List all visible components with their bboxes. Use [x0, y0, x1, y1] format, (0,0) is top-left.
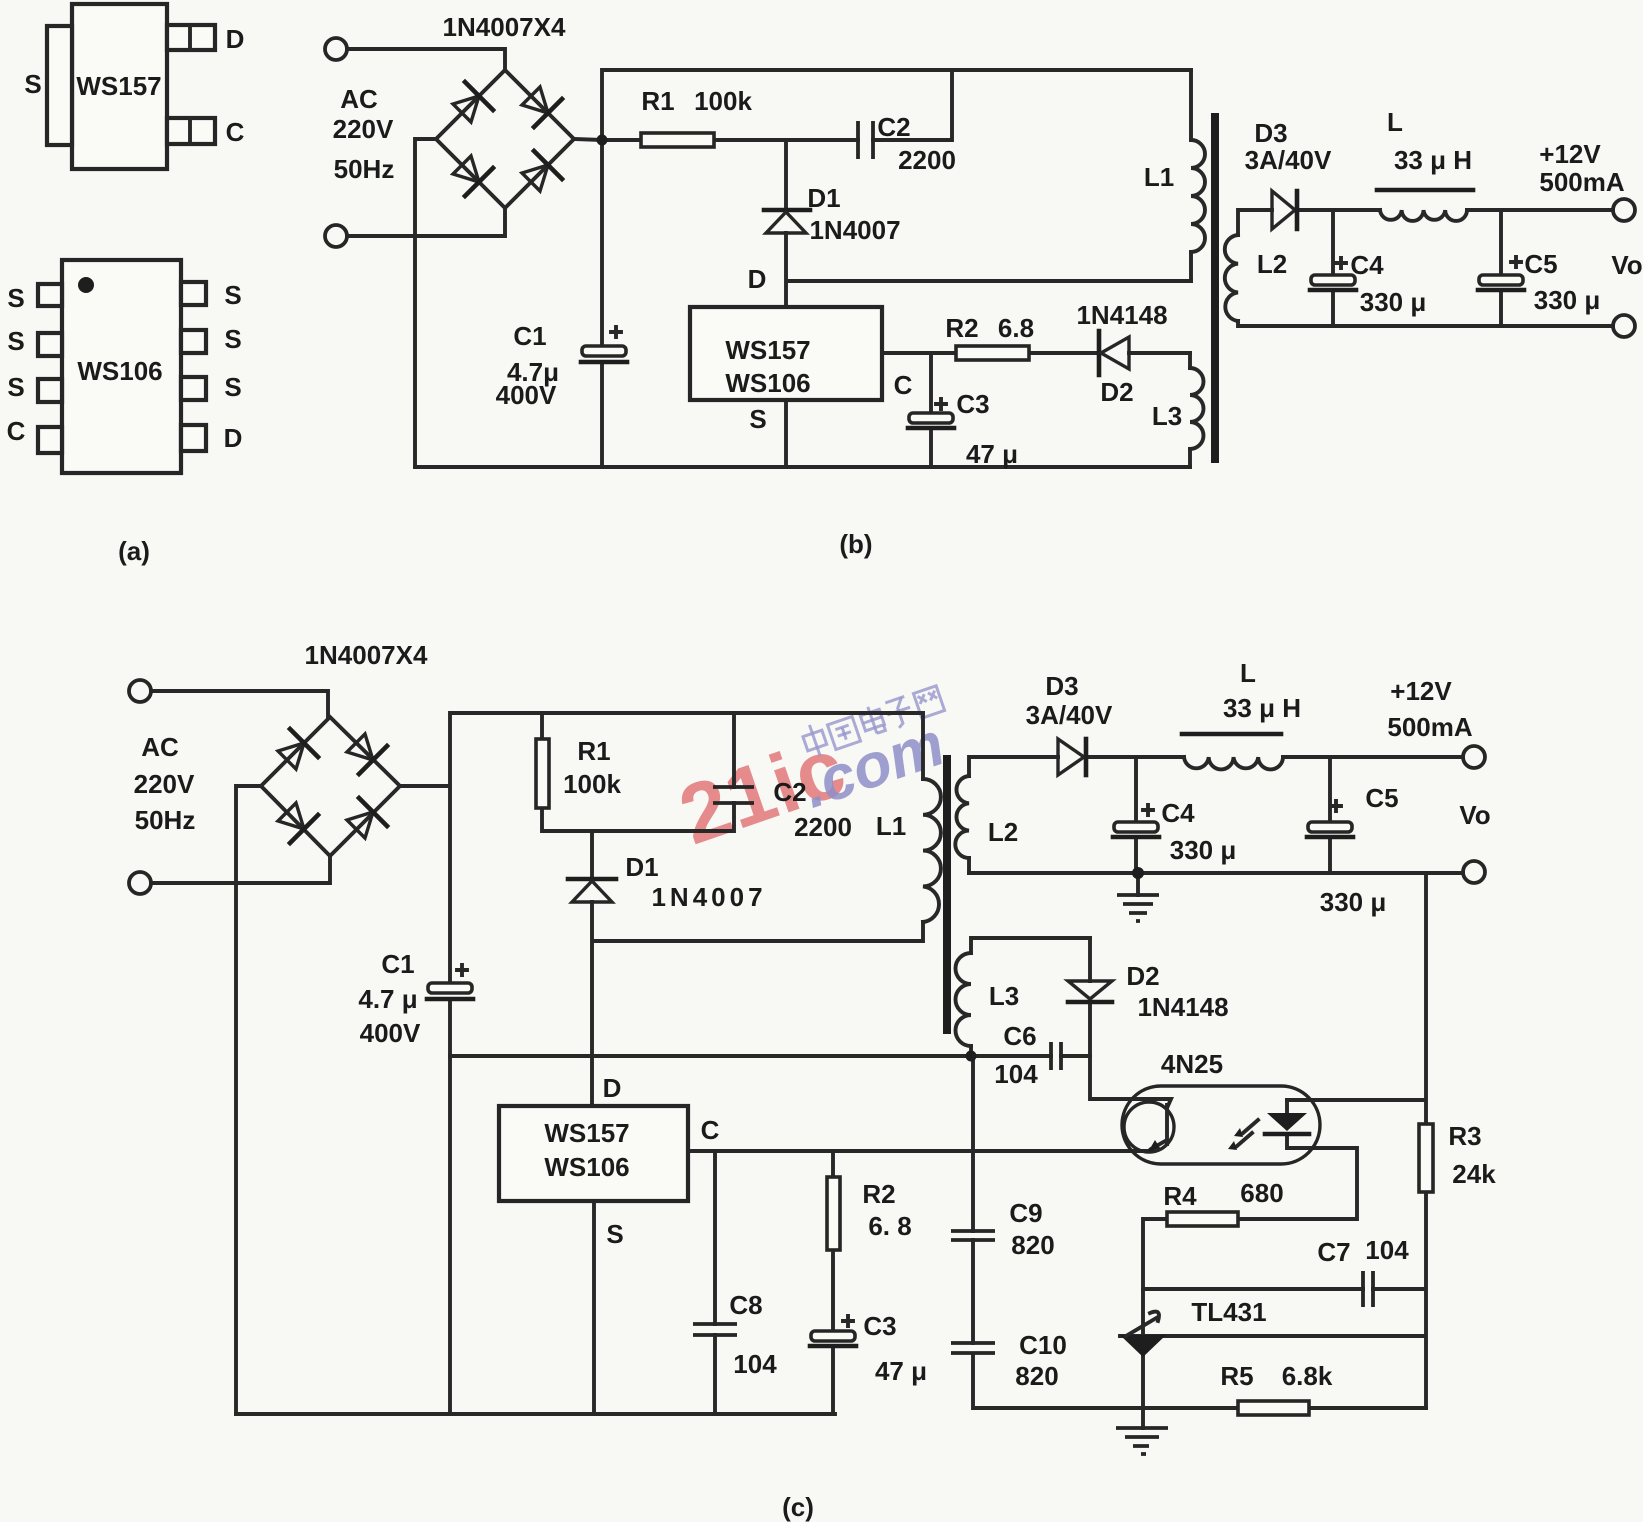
svg-text:AC: AC — [141, 732, 179, 762]
svg-text:D: D — [748, 264, 767, 294]
svg-text:L: L — [1387, 107, 1403, 137]
svg-text:C8: C8 — [729, 1290, 762, 1320]
svg-text:C7: C7 — [1317, 1237, 1350, 1267]
svg-text:C: C — [894, 370, 913, 400]
svg-text:33 μ H: 33 μ H — [1223, 693, 1301, 723]
svg-text:S: S — [224, 372, 241, 402]
svg-text:S: S — [24, 69, 41, 99]
svg-text:C: C — [226, 117, 245, 147]
svg-text:L1: L1 — [1144, 162, 1174, 192]
svg-text:500mA: 500mA — [1387, 712, 1472, 742]
svg-text:S: S — [224, 280, 241, 310]
svg-text:(b): (b) — [839, 529, 872, 559]
svg-text:S: S — [7, 283, 24, 313]
svg-text:6.8k: 6.8k — [1282, 1361, 1333, 1391]
svg-text:L3: L3 — [1152, 401, 1182, 431]
svg-text:R2: R2 — [945, 313, 978, 343]
svg-text:220V: 220V — [333, 114, 394, 144]
svg-text:6. 8: 6. 8 — [868, 1211, 911, 1241]
svg-text:C6: C6 — [1003, 1021, 1036, 1051]
svg-text:820: 820 — [1011, 1230, 1054, 1260]
svg-text:D2: D2 — [1100, 377, 1133, 407]
svg-text:400V: 400V — [360, 1018, 421, 1048]
svg-text:+12V: +12V — [1539, 139, 1601, 169]
svg-text:L1: L1 — [876, 811, 906, 841]
svg-text:S: S — [7, 372, 24, 402]
svg-text:C2: C2 — [877, 112, 910, 142]
svg-text:(c): (c) — [782, 1492, 814, 1522]
svg-text:R2: R2 — [862, 1179, 895, 1209]
svg-text:S: S — [224, 324, 241, 354]
svg-text:WS157: WS157 — [76, 71, 161, 101]
svg-text:3A/40V: 3A/40V — [1245, 145, 1332, 175]
svg-text:C10: C10 — [1019, 1330, 1067, 1360]
svg-text:D1: D1 — [625, 852, 658, 882]
svg-text:R4: R4 — [1163, 1181, 1197, 1211]
svg-text:C3: C3 — [863, 1311, 896, 1341]
svg-text:47 μ: 47 μ — [966, 439, 1018, 469]
svg-text:1N4148: 1N4148 — [1076, 300, 1167, 330]
svg-text:Vo: Vo — [1459, 800, 1490, 830]
svg-text:D2: D2 — [1126, 961, 1159, 991]
svg-text:WS106: WS106 — [725, 368, 810, 398]
svg-text:D: D — [603, 1073, 622, 1103]
svg-text:(a): (a) — [118, 536, 150, 566]
svg-text:WS106: WS106 — [544, 1152, 629, 1182]
svg-text:24k: 24k — [1452, 1159, 1496, 1189]
svg-text:3A/40V: 3A/40V — [1026, 700, 1113, 730]
svg-text:Vo: Vo — [1611, 250, 1642, 280]
svg-text:680: 680 — [1240, 1178, 1283, 1208]
svg-text:1N4007X4: 1N4007X4 — [305, 640, 428, 670]
svg-text:104: 104 — [994, 1059, 1038, 1089]
svg-text:820: 820 — [1015, 1361, 1058, 1391]
svg-text:C2: C2 — [773, 777, 806, 807]
svg-text:C1: C1 — [381, 949, 414, 979]
svg-text:R1: R1 — [641, 86, 674, 116]
svg-text:D3: D3 — [1045, 671, 1078, 701]
svg-text:C5: C5 — [1365, 783, 1398, 813]
svg-text:R5: R5 — [1220, 1361, 1253, 1391]
svg-text:1N4007: 1N4007 — [651, 882, 766, 912]
svg-text:1N4148: 1N4148 — [1137, 992, 1228, 1022]
svg-text:6.8: 6.8 — [998, 313, 1034, 343]
svg-text:R3: R3 — [1448, 1121, 1481, 1151]
svg-text:2200: 2200 — [794, 812, 852, 842]
svg-text:100k: 100k — [694, 86, 752, 116]
svg-text:WS157: WS157 — [725, 335, 810, 365]
svg-text:1N4007: 1N4007 — [809, 215, 900, 245]
svg-text:R1: R1 — [577, 736, 610, 766]
svg-text:L2: L2 — [1257, 249, 1287, 279]
svg-text:4.7 μ: 4.7 μ — [358, 984, 417, 1014]
svg-text:D1: D1 — [807, 183, 840, 213]
svg-text:S: S — [749, 404, 766, 434]
svg-text:50Hz: 50Hz — [135, 805, 196, 835]
svg-text:C4: C4 — [1161, 798, 1195, 828]
svg-text:D: D — [224, 423, 243, 453]
svg-text:L3: L3 — [989, 981, 1019, 1011]
svg-text:L2: L2 — [988, 817, 1018, 847]
svg-text:C1: C1 — [513, 321, 546, 351]
svg-text:L: L — [1240, 658, 1256, 688]
svg-text:C: C — [7, 416, 26, 446]
svg-text:1N4007X4: 1N4007X4 — [443, 12, 566, 42]
svg-text:C4: C4 — [1350, 250, 1384, 280]
svg-text:S: S — [7, 326, 24, 356]
svg-text:330 μ: 330 μ — [1320, 887, 1387, 917]
svg-text:C5: C5 — [1524, 249, 1557, 279]
svg-text:C3: C3 — [956, 389, 989, 419]
svg-text:C: C — [701, 1115, 720, 1145]
svg-text:330 μ: 330 μ — [1170, 835, 1237, 865]
svg-text:+12V: +12V — [1390, 676, 1452, 706]
svg-text:D3: D3 — [1254, 118, 1287, 148]
svg-text:AC: AC — [340, 84, 378, 114]
svg-text:220V: 220V — [134, 769, 195, 799]
svg-text:500mA: 500mA — [1539, 167, 1624, 197]
svg-text:330 μ: 330 μ — [1360, 287, 1427, 317]
svg-text:50Hz: 50Hz — [334, 154, 395, 184]
svg-text:104: 104 — [733, 1349, 777, 1379]
svg-text:104: 104 — [1365, 1235, 1409, 1265]
svg-text:100k: 100k — [563, 769, 621, 799]
svg-text:WS106: WS106 — [77, 356, 162, 386]
svg-text:47 μ: 47 μ — [875, 1356, 927, 1386]
svg-text:330 μ: 330 μ — [1534, 285, 1601, 315]
svg-text:WS157: WS157 — [544, 1118, 629, 1148]
svg-text:S: S — [606, 1219, 623, 1249]
svg-text:TL431: TL431 — [1191, 1297, 1266, 1327]
svg-text:33 μ H: 33 μ H — [1394, 145, 1472, 175]
svg-text:4N25: 4N25 — [1161, 1049, 1223, 1079]
svg-text:400V: 400V — [496, 380, 557, 410]
svg-text:D: D — [226, 24, 245, 54]
svg-text:2200: 2200 — [898, 145, 956, 175]
svg-text:C9: C9 — [1009, 1198, 1042, 1228]
